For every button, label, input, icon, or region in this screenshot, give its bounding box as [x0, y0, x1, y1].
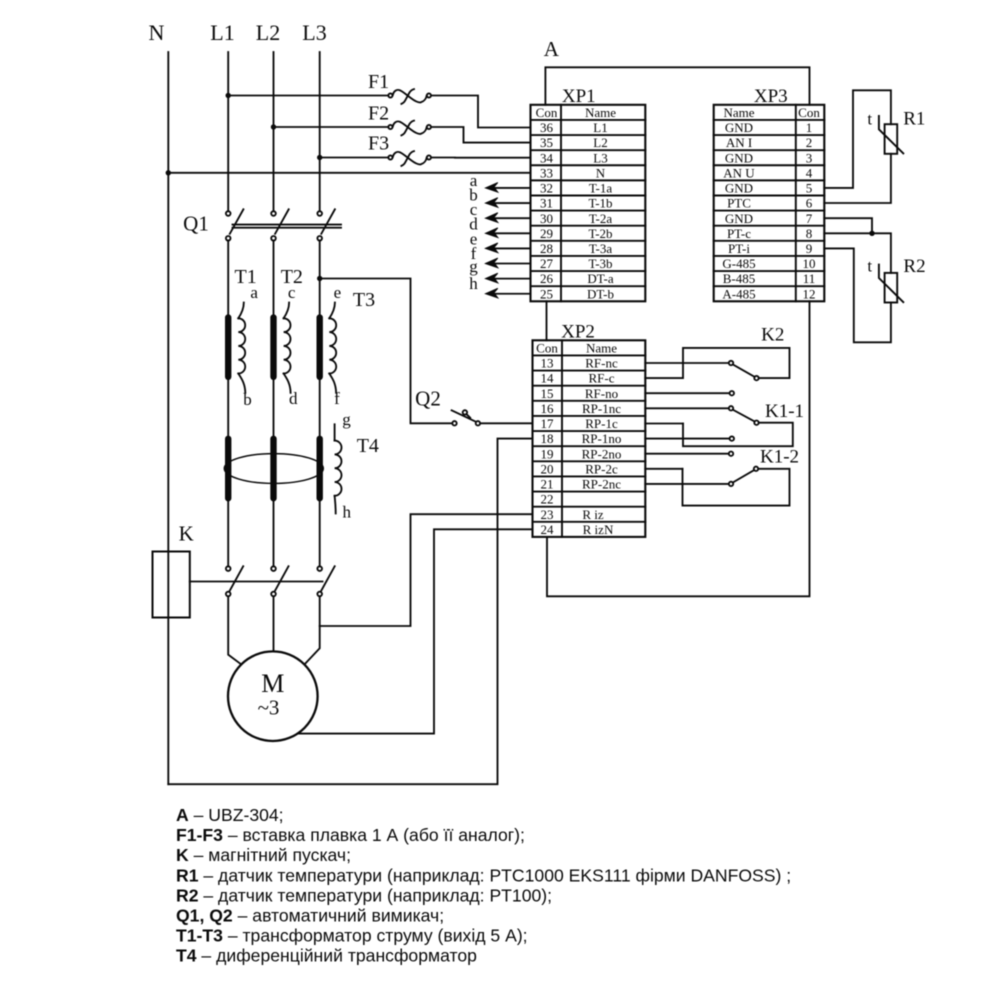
breaker Q2 — [415, 387, 480, 426]
wire XP1 pin 25 arrow h — [469, 274, 530, 298]
svg-text:N: N — [596, 165, 606, 180]
svg-text:Q2: Q2 — [415, 387, 441, 411]
svg-text:L2: L2 — [593, 135, 607, 150]
wire XP1 pin 27 arrow f — [471, 244, 531, 268]
transformer T4 secondary coil — [335, 410, 379, 521]
svg-text:Name: Name — [585, 105, 616, 120]
svg-text:e: e — [334, 283, 342, 302]
svg-text:AN U: AN U — [723, 165, 755, 180]
wire XP1 pin 30 arrow c — [470, 200, 531, 222]
svg-text:19: 19 — [541, 446, 554, 461]
breaker Q1 — [183, 209, 341, 240]
wire phase vertical — [319, 241, 321, 567]
wire XP2 pin 24 R izN to motor — [298, 529, 533, 733]
wire K to motor phase 2 — [273, 596, 275, 651]
wire phase vertical — [227, 241, 229, 567]
wire XP1 pin 29 arrow d — [469, 215, 530, 238]
connector XP1 — [531, 86, 646, 301]
svg-text:Name: Name — [586, 340, 617, 355]
svg-text:d: d — [289, 389, 298, 408]
junction L1/F1 — [226, 93, 231, 98]
transformer T2 secondary coil — [281, 266, 303, 408]
svg-text:2: 2 — [806, 135, 813, 150]
transformer T1 primary bar — [225, 318, 231, 377]
svg-text:11: 11 — [803, 271, 816, 286]
svg-text:RP-1no: RP-1no — [582, 431, 622, 446]
wire L2 to F2 — [274, 126, 389, 128]
transformer T1 secondary coil — [234, 266, 258, 409]
svg-text:7: 7 — [806, 211, 813, 226]
svg-text:33: 33 — [540, 165, 553, 180]
svg-text:T-3b: T-3b — [588, 256, 612, 271]
junction N bus — [166, 170, 171, 175]
svg-text:R iz: R iz — [582, 507, 604, 522]
svg-text:31: 31 — [540, 196, 553, 211]
fuse F1 — [368, 71, 431, 104]
svg-text:R1: R1 — [903, 109, 925, 130]
svg-text:R2: R2 — [903, 256, 925, 277]
svg-text:L3: L3 — [593, 150, 607, 165]
fuse F2 — [368, 103, 431, 136]
svg-text:GND: GND — [725, 211, 753, 226]
svg-text:T-1b: T-1b — [588, 196, 612, 211]
wire N to XP1 pin 33 — [168, 172, 530, 174]
svg-text:28: 28 — [540, 241, 553, 256]
node L3 — [302, 20, 326, 45]
svg-text:T-1a: T-1a — [589, 181, 613, 196]
svg-text:t: t — [867, 257, 872, 276]
transformer T2 primary bar — [270, 318, 276, 377]
contactor K coil — [153, 522, 194, 618]
svg-text:36: 36 — [540, 120, 554, 135]
device A outline right/bottom — [547, 301, 810, 596]
svg-text:T-2b: T-2b — [588, 226, 612, 241]
wire L1 to F1 — [228, 95, 388, 97]
thermistor R1 — [867, 109, 925, 154]
svg-text:14: 14 — [541, 371, 555, 386]
wire F2 to XP1 pin 35 — [431, 127, 531, 143]
svg-text:25: 25 — [540, 286, 553, 301]
svg-text:h: h — [469, 274, 478, 293]
svg-text:K1-1: K1-1 — [765, 401, 804, 422]
device A outline top — [545, 67, 809, 105]
fuse F3 — [368, 133, 431, 166]
svg-text:F1-F3 – вставка плавка 1 А (аб: F1-F3 – вставка плавка 1 А (або її анало… — [176, 825, 525, 845]
svg-text:Name: Name — [723, 105, 754, 120]
svg-text:Con: Con — [798, 105, 820, 120]
svg-text:9: 9 — [806, 241, 813, 256]
svg-text:K: K — [179, 522, 194, 546]
svg-text:PT-c: PT-c — [727, 226, 751, 241]
svg-text:a: a — [250, 283, 258, 302]
svg-text:B-485: B-485 — [723, 271, 756, 286]
svg-text:K – магнітний пускач;: K – магнітний пускач; — [176, 845, 351, 865]
junction L2/F2 — [271, 124, 276, 129]
wire L3 to Q2 — [320, 279, 453, 424]
wire L2 vertical — [273, 52, 275, 211]
wire F1 to XP1 pin 36 — [431, 96, 531, 128]
svg-text:A: A — [544, 37, 560, 61]
svg-text:c: c — [288, 283, 296, 302]
svg-text:F2: F2 — [368, 103, 389, 125]
svg-text:L1: L1 — [593, 120, 607, 135]
svg-text:15: 15 — [541, 386, 554, 401]
wire F3 to XP1 pin 34 — [431, 157, 531, 159]
wire XP3 pin 7 junction — [824, 218, 872, 233]
svg-text:b: b — [243, 390, 252, 409]
svg-text:h: h — [342, 502, 351, 521]
svg-text:RP-2nc: RP-2nc — [582, 477, 621, 492]
wire XP2 pin 23 R iz to motor phase 3 — [320, 514, 533, 626]
svg-text:16: 16 — [541, 401, 555, 416]
wire XP1 pin 31 arrow b — [469, 185, 530, 207]
wire R1 to XP3 pin 6 — [824, 154, 891, 203]
wire K to motor phase 3 — [305, 596, 320, 664]
svg-text:26: 26 — [540, 271, 554, 286]
svg-text:21: 21 — [541, 477, 554, 492]
svg-text:3: 3 — [806, 150, 813, 165]
svg-text:T-2a: T-2a — [589, 211, 613, 226]
wire XP3 pin 5 to R1 — [824, 90, 891, 188]
svg-text:1: 1 — [806, 120, 813, 135]
svg-text:T1-T3 – трансформатор струму (: T1-T3 – трансформатор струму (вихід 5 А)… — [176, 926, 528, 946]
svg-text:R izN: R izN — [583, 522, 614, 537]
svg-text:PTC: PTC — [727, 196, 751, 211]
svg-text:Con: Con — [536, 340, 558, 355]
svg-text:17: 17 — [541, 416, 555, 431]
wire L3 vertical — [319, 52, 321, 211]
wire L3 to F3 — [320, 157, 389, 159]
svg-text:5: 5 — [806, 181, 813, 196]
svg-text:T-3a: T-3a — [589, 241, 613, 256]
node L1 — [210, 20, 234, 45]
svg-text:27: 27 — [540, 256, 554, 271]
connector XP2 — [533, 322, 646, 537]
svg-text:RF-c: RF-c — [589, 371, 615, 386]
wire XP1 pin 32 arrow a — [470, 171, 531, 192]
svg-text:10: 10 — [803, 256, 816, 271]
thermistor R2 — [867, 256, 925, 303]
svg-text:RP-2no: RP-2no — [582, 446, 622, 461]
relay contact K2 — [645, 325, 789, 396]
svg-text:20: 20 — [541, 461, 554, 476]
svg-text:Con: Con — [536, 105, 558, 120]
svg-text:PT-i: PT-i — [728, 241, 750, 256]
svg-text:4: 4 — [806, 165, 813, 180]
svg-text:35: 35 — [540, 135, 553, 150]
relay contact K1-1 — [645, 401, 804, 446]
svg-text:f: f — [334, 389, 340, 408]
transformer T3 secondary coil — [329, 283, 375, 408]
motor M — [228, 651, 318, 741]
svg-text:DT-a: DT-a — [587, 271, 613, 286]
svg-text:K1-2: K1-2 — [760, 447, 799, 468]
svg-text:M: M — [261, 669, 284, 698]
svg-text:R1 – датчик температури (напри: R1 – датчик температури (наприклад: PTC1… — [176, 865, 791, 885]
wire R2 to XP3 pin 9 — [824, 248, 891, 342]
svg-text:A – UBZ-304;: A – UBZ-304; — [176, 805, 284, 825]
wire L1 vertical — [227, 52, 229, 211]
node L2 — [256, 20, 280, 45]
svg-text:A-485: A-485 — [722, 286, 755, 301]
svg-text:t: t — [867, 109, 872, 128]
svg-text:~3: ~3 — [258, 696, 280, 720]
svg-text:F1: F1 — [368, 71, 389, 93]
wire Q2 to XP2 pin 17 — [480, 422, 532, 424]
svg-text:RP-1nc: RP-1nc — [582, 401, 621, 416]
wire phase vertical — [273, 241, 275, 567]
transformer T4 differential core ellipse — [224, 454, 323, 484]
svg-text:AN I: AN I — [726, 135, 752, 150]
transformer T3 primary bar — [317, 318, 323, 377]
svg-text:GND: GND — [725, 181, 753, 196]
svg-text:T3: T3 — [353, 289, 375, 311]
svg-text:L1: L1 — [210, 20, 234, 45]
transformer T4 primary bar 2 — [270, 439, 276, 498]
svg-text:12: 12 — [803, 286, 816, 301]
wire K to motor phase 1 — [228, 596, 241, 664]
svg-text:24: 24 — [541, 522, 555, 537]
svg-text:8: 8 — [806, 226, 813, 241]
svg-text:T4: T4 — [357, 435, 379, 457]
svg-text:18: 18 — [541, 431, 554, 446]
transformer T4 primary bar 3 — [317, 439, 323, 498]
svg-text:6: 6 — [806, 196, 813, 211]
svg-text:L2: L2 — [256, 20, 280, 45]
connector XP3 — [714, 86, 825, 301]
wire XP1 to XP2 — [546, 301, 548, 340]
wire XP1 pin 28 arrow e — [470, 229, 531, 252]
svg-text:32: 32 — [540, 181, 553, 196]
wire N vertical — [167, 52, 169, 784]
svg-text:34: 34 — [540, 150, 554, 165]
transformer T4 primary bar 1 — [225, 439, 231, 498]
junction L3/Q2 — [317, 276, 322, 281]
svg-text:23: 23 — [541, 507, 554, 522]
svg-text:F3: F3 — [368, 133, 389, 155]
svg-text:DT-b: DT-b — [587, 286, 614, 301]
svg-text:30: 30 — [540, 211, 553, 226]
junction L3/F3 — [317, 155, 322, 160]
svg-text:RP-1c: RP-1c — [585, 416, 618, 431]
svg-text:G-485: G-485 — [722, 256, 755, 271]
svg-text:Q1: Q1 — [183, 212, 209, 236]
svg-text:L3: L3 — [302, 20, 326, 45]
svg-text:RP-2c: RP-2c — [585, 461, 618, 476]
svg-text:T4 – диференційний трансформат: T4 – диференційний трансформатор — [176, 946, 477, 966]
svg-text:R2 – датчик температури (напри: R2 – датчик температури (наприклад: PT10… — [176, 885, 552, 905]
svg-text:g: g — [342, 410, 351, 429]
contactor K contacts — [190, 566, 335, 596]
svg-text:RF-no: RF-no — [585, 386, 618, 401]
wire XP2 pin 18 RP-1no to N — [168, 439, 532, 785]
relay contact K1-2 — [645, 447, 799, 506]
node N — [149, 20, 165, 45]
svg-text:RF-nc: RF-nc — [585, 356, 618, 371]
svg-text:GND: GND — [725, 150, 753, 165]
svg-text:Q1, Q2 – автоматичний вимикач;: Q1, Q2 – автоматичний вимикач; — [176, 906, 444, 926]
svg-text:29: 29 — [540, 226, 553, 241]
wire XP1 pin 26 arrow g — [469, 257, 530, 283]
svg-text:13: 13 — [541, 356, 554, 371]
svg-text:22: 22 — [541, 492, 554, 507]
svg-text:K2: K2 — [761, 325, 784, 346]
wire XP3 pin 8 to R2 — [824, 233, 891, 273]
svg-text:N: N — [149, 20, 165, 45]
svg-text:GND: GND — [725, 120, 753, 135]
